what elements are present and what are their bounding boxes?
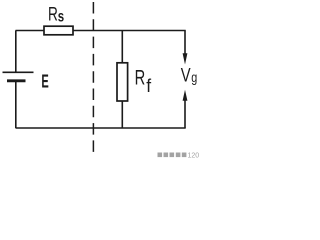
svg-text:R: R: [135, 66, 146, 89]
battery E top plate: [3, 71, 34, 73]
wire right vertical upper: [184, 31, 186, 56]
dashed boundary line: [92, 2, 94, 156]
wire R_f branch upper: [121, 31, 123, 63]
svg-text:E: E: [41, 72, 48, 93]
svg-text:g: g: [191, 70, 197, 85]
wire bottom horizontal: [16, 127, 186, 129]
resistor R_s: [44, 26, 73, 35]
svg-text:120: 120: [188, 152, 200, 159]
arrowhead Vg bottom (pointing up): [183, 90, 188, 101]
wire right vertical lower: [184, 100, 186, 128]
watermark: [158, 152, 200, 159]
wire left vertical upper: [15, 31, 17, 73]
svg-text:V: V: [181, 65, 191, 86]
resistor R_f: [117, 63, 128, 101]
wire top horizontal to right: [73, 30, 186, 32]
wire R_f branch lower: [121, 101, 123, 128]
wire top-left horizontal: [16, 30, 45, 32]
svg-text:s: s: [58, 6, 65, 24]
battery E bottom plate: [7, 79, 26, 82]
svg-text:R: R: [48, 3, 58, 25]
wire left vertical lower: [15, 81, 17, 128]
arrowhead Vg top (pointing down): [183, 53, 188, 64]
